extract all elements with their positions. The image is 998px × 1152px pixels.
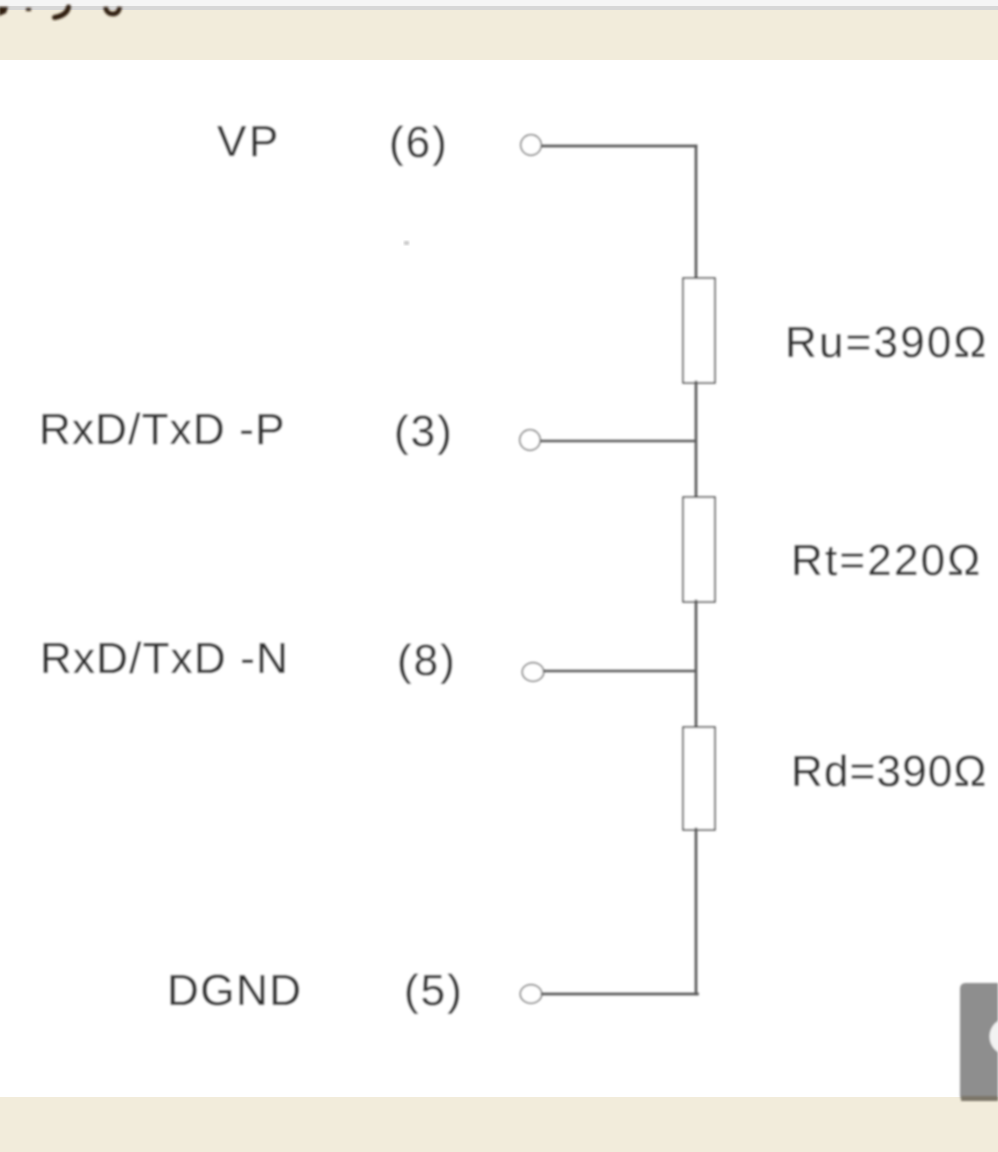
wire VP horizontal (542, 145, 696, 148)
side widget button (960, 983, 998, 1101)
top beige banner (0, 10, 998, 60)
terminal circle pin 5 (521, 986, 541, 1003)
side widget circle icon (990, 1018, 998, 1055)
wire pin8 to node (544, 670, 695, 673)
wire pin3 to node (541, 440, 695, 443)
resistor Rt (684, 498, 714, 601)
wire Rd to DGND corner (695, 829, 698, 994)
cropped glyph mark 3 (55, 7, 69, 18)
cropped glyph mark 2 (26, 8, 31, 11)
terminal circle pin 3 (521, 431, 540, 450)
wire VP vertical to Ru (695, 146, 698, 279)
resistor Ru (684, 279, 714, 382)
svg-text:(3): (3) (394, 407, 454, 456)
svg-text:VP: VP (217, 117, 281, 166)
terminal circle pin 6 (522, 136, 541, 155)
svg-text:(6): (6) (389, 118, 449, 167)
svg-text:Rt=220Ω: Rt=220Ω (791, 536, 982, 585)
wire pin5 to node (542, 993, 698, 996)
wire Ru to Rt (695, 382, 698, 498)
top gray divider line (0, 6, 998, 10)
svg-text:(8): (8) (397, 636, 457, 685)
cropped glyph mark 1 (0, 7, 8, 16)
cropped glyph mark 4 (106, 7, 120, 14)
svg-text:Rd=390Ω: Rd=390Ω (791, 747, 988, 796)
svg-text:RxD/TxD -P: RxD/TxD -P (39, 405, 286, 454)
svg-text:DGND: DGND (167, 966, 303, 1015)
bottom beige banner (0, 1097, 998, 1152)
svg-text:RxD/TxD -N: RxD/TxD -N (40, 634, 289, 683)
wire Rt to Rd (695, 601, 698, 728)
terminal circle pin 8 (523, 664, 543, 681)
stray speck (404, 241, 409, 245)
side widget bottom shade (961, 1096, 998, 1101)
svg-text:(5): (5) (404, 966, 464, 1015)
svg-text:Ru=390Ω: Ru=390Ω (785, 318, 989, 367)
top window strip (0, 0, 998, 6)
resistor Rd (684, 728, 714, 829)
